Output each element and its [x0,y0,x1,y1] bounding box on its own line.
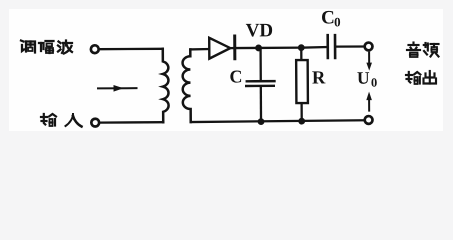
U0 arrow down [366,92,372,111]
wire C0 to output terminal [336,45,364,47]
wire C node to R node [259,47,302,50]
char 频 [424,43,439,57]
node bottom C junction [258,118,265,125]
svg-text:C: C [321,7,335,28]
text 输入 [41,114,82,127]
svg-text:U: U [357,68,370,88]
capacitor C plates [246,81,274,86]
bottom rail wire [191,120,365,122]
input terminal bottom [91,119,99,127]
svg-text:R: R [312,68,326,88]
output terminal bottom [365,116,373,124]
node top C junction [255,45,262,52]
resistor R branch wires [300,48,302,60]
resistor R body [296,60,308,103]
wire R node to C0 [301,46,327,49]
output terminal top [365,43,373,51]
char 音 [407,43,420,58]
svg-text:C: C [229,66,242,86]
wire secondary top to diode [190,48,209,51]
node top R junction [298,44,305,51]
svg-text:0: 0 [334,14,341,29]
page background [0,0,453,142]
transformer T secondary winding [182,49,190,122]
diode VD [209,36,235,59]
transformer T primary winding [163,49,169,122]
text 输出 [406,71,436,84]
svg-text:VD: VD [246,20,274,41]
svg-text:0: 0 [371,76,377,90]
input terminal top [91,45,99,53]
capacitor C0 plates [328,35,335,58]
wire diode to C node [236,47,258,49]
wire top-left [99,48,163,51]
char 输 second [406,72,420,84]
input arrow [98,85,137,92]
capacitor C branch wires [259,48,261,80]
char 幅 [39,41,54,53]
char 输 [41,114,56,126]
text 调幅波 [21,41,72,54]
U0 arrow up [366,53,372,71]
wire bottom-left [100,121,164,124]
node bottom R junction [298,118,305,125]
char 出 [424,71,437,84]
char 入 [66,114,82,127]
char 调 [21,41,35,53]
text 音频 [407,43,439,58]
char 波 [58,41,72,54]
